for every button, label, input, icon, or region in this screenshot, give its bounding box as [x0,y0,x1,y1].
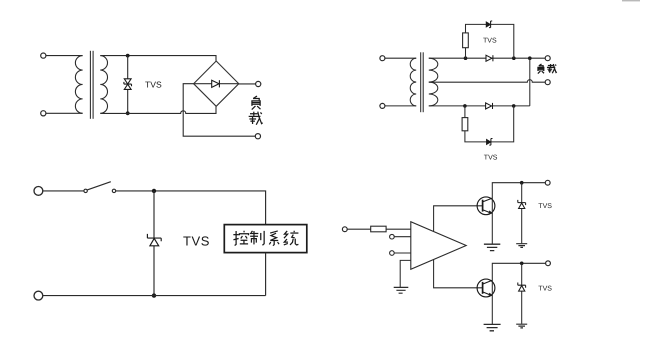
switch S1 [84,189,87,192]
ground Q2 [484,324,501,330]
junction dot bottom [126,111,130,115]
TVS diode D4 [487,139,493,146]
terminal J11 [342,227,347,232]
junction dot [528,56,532,60]
TVS bidirectional diode [124,79,132,90]
junction dot [512,56,516,60]
svg-text:TVS: TVS [538,203,552,210]
label control system [233,231,298,246]
transistor Q1 [477,197,495,215]
wire box bottom [265,253,267,296]
label load (horizontal) [538,64,557,74]
junction dot [152,293,156,297]
svg-text:TVS: TVS [538,285,552,292]
TVS diode D5 [147,234,161,246]
terminal J4 [255,134,260,139]
TVS diode D6 [518,200,526,209]
wire input 3 [394,252,411,254]
wire TVS branch [127,56,129,114]
resistor R2 [462,118,468,131]
transformer T1 secondary winding [100,56,107,114]
wire secondary top [429,57,545,59]
wire top right [116,191,266,225]
wire bottom [43,295,266,297]
junction dot [520,262,524,266]
svg-text:TVS: TVS [145,79,162,89]
wire top snubber [466,24,514,58]
junction dot top [126,54,130,58]
wire primary bottom [385,105,416,107]
label load (vertical) [249,96,263,125]
resistor R3 [371,226,386,232]
transformer T1 primary winding [75,56,82,114]
terminal J6 [380,103,385,108]
wire TVS column 2 [521,263,523,324]
wire secondary bottom with hop [100,106,216,113]
junction dot [463,104,467,108]
wire op-amp to Q2 base [434,260,483,288]
ground symbol [394,287,409,293]
resistor R1 [463,33,469,48]
junction dot [520,181,524,185]
svg-text:TVS: TVS [483,38,497,45]
wire Q1 collector-emitter rail [492,183,545,244]
svg-text:TVS: TVS [484,155,498,162]
wire primary top [46,55,83,57]
wire to op-amp [386,228,411,230]
wire primary bottom [46,112,83,114]
terminal J10 [34,291,43,300]
wire primary top [385,57,416,59]
wire secondary bottom [429,105,530,107]
terminal J3 [256,81,261,86]
wire secondary top to bridge [100,56,216,61]
terminal J5 [380,56,385,61]
wire input [347,228,371,230]
wire ground stub [400,260,411,287]
wire TVS branch [153,191,155,296]
artifact dash top edge [622,0,640,1]
transformer T2 secondary winding [429,58,438,106]
wire bottom snubber [465,106,514,142]
mini ground D7 [516,324,527,328]
wire TVS column 1 [521,183,523,244]
terminal J9 [34,187,43,196]
diode D3 [486,103,492,109]
terminal J7 [545,56,550,61]
wire input 2 [394,236,411,238]
junction dot [512,104,516,108]
terminal J2 [41,111,46,116]
terminal J13 [390,251,395,256]
terminal J8 [545,80,550,85]
terminal J12 [390,234,395,239]
TVS diode D2 [486,21,492,28]
terminal J1 [41,53,46,58]
op-amp U1 [411,222,466,270]
transformer T2 core [420,52,422,112]
transistor Q2 [477,279,495,297]
wire bridge minus output [183,84,255,137]
wire cathode rail [529,58,531,106]
junction dot [464,56,468,60]
transformer T1 core [89,51,91,119]
junction dot [152,189,156,193]
transformer T2 primary winding [410,58,416,106]
ground Q1 [484,244,500,250]
mini ground D6 [516,244,527,248]
terminal J14 [545,180,550,185]
diode D1 [486,55,492,61]
wire op-amp to Q1 base [434,206,483,232]
TVS diode D7 [518,283,526,292]
wire top left [43,190,84,192]
svg-text:TVS: TVS [183,233,210,248]
wire center tap with hop [429,80,545,82]
wire bridge plus output [239,83,256,85]
wire Q2 collector-emitter rail [492,263,545,324]
control system box [224,225,306,253]
terminal J15 [546,261,551,266]
bridge rectifier BR1 [194,61,239,106]
